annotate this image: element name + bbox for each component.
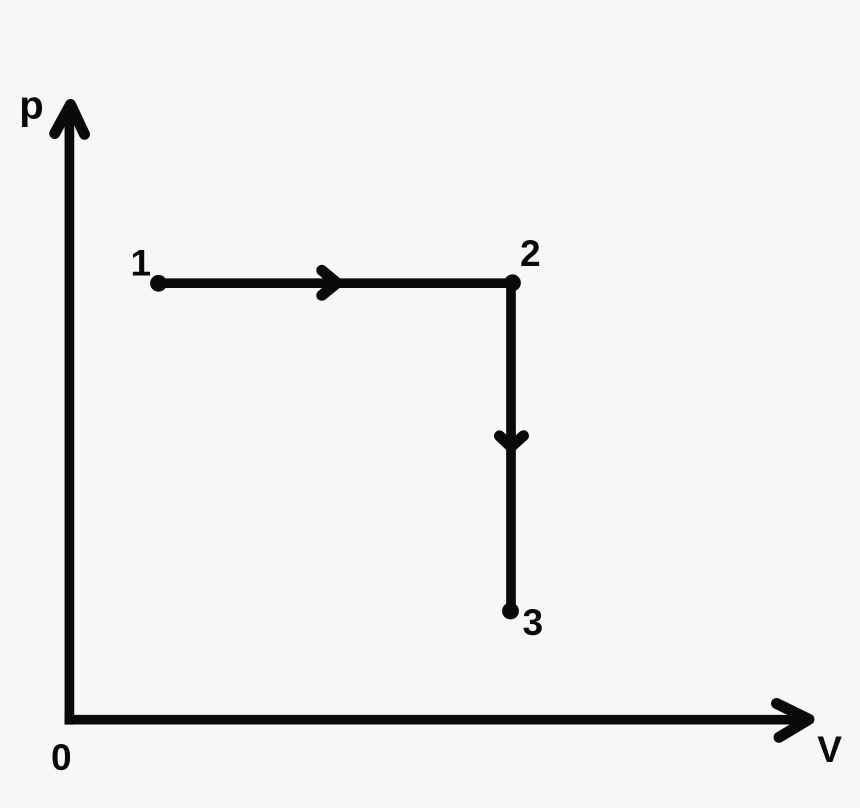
- svg-text:0: 0: [51, 737, 72, 778]
- V axis (horizontal): [65, 715, 803, 725]
- svg-text:p: p: [19, 84, 43, 128]
- process line 2-3 (isochor): [506, 283, 516, 611]
- node point 3: [502, 603, 519, 620]
- svg-text:V: V: [817, 729, 842, 770]
- arrow on line 1-2: [322, 270, 337, 295]
- node point 2: [504, 274, 521, 291]
- arrow on line 2-3: [500, 436, 524, 447]
- svg-text:2: 2: [520, 233, 541, 274]
- V axis arrowhead: [777, 704, 810, 738]
- p axis (vertical): [65, 108, 75, 725]
- node point 1: [150, 275, 167, 292]
- process line 1-2 (isobar): [158, 278, 513, 288]
- p axis arrowhead: [55, 105, 85, 135]
- svg-text:1: 1: [131, 243, 152, 284]
- svg-text:3: 3: [523, 602, 544, 643]
